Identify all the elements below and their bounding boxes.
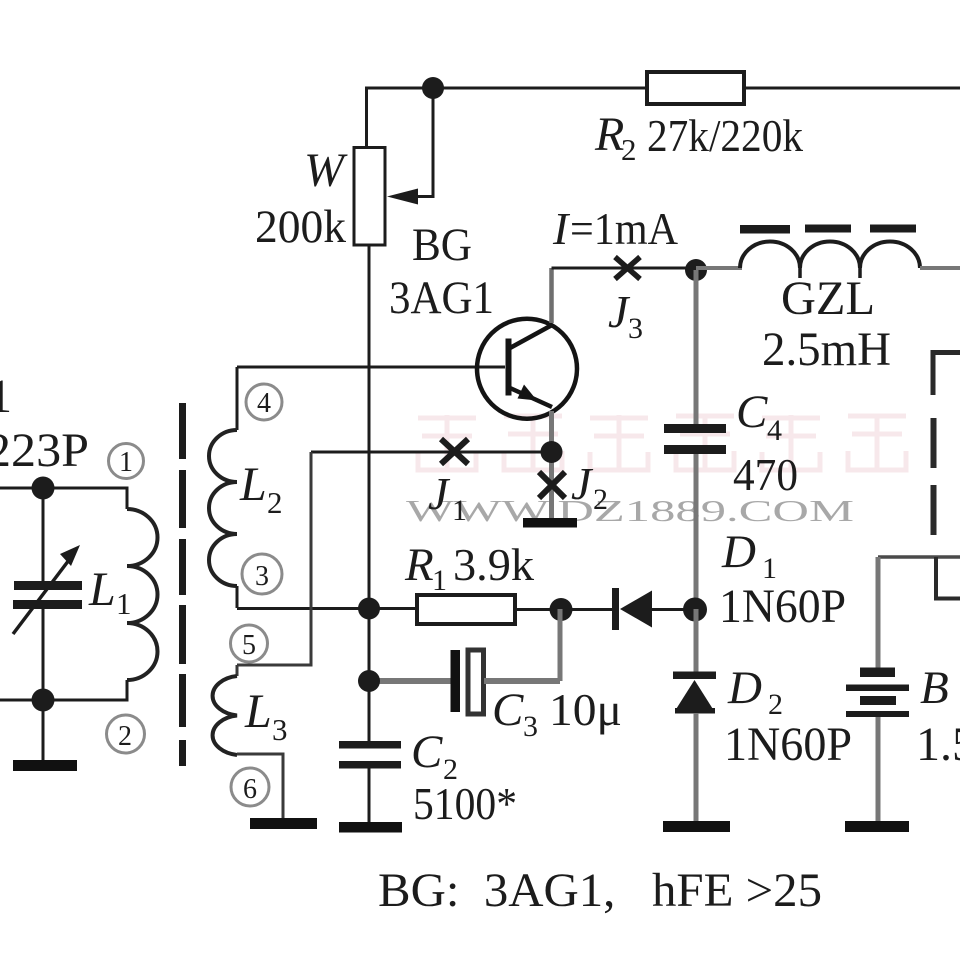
svg-text:B: B [920, 662, 949, 714]
transistor BG emitter stroke [510, 388, 552, 407]
inductor L3 [213, 676, 237, 755]
wire pot top drop [365, 88, 368, 149]
svg-text:2.5mH: 2.5mH [762, 323, 891, 376]
wire J1 to tap 5 [237, 452, 311, 665]
potentiometer W body [354, 148, 385, 246]
wire top rail [365, 87, 960, 90]
svg-text:C: C [492, 684, 524, 736]
svg-text:6: 6 [243, 774, 257, 805]
switch J1 cross [441, 439, 468, 464]
transistor BG circle [477, 319, 577, 419]
svg-text:200k: 200k [255, 201, 346, 253]
ground L3 [250, 818, 317, 829]
wire emitter vertical [549, 411, 554, 518]
wire antenna top [0, 488, 127, 509]
resistor R1 [417, 595, 515, 624]
potentiometer W wiper arrow [387, 189, 418, 205]
svg-text:3AG1: 3AG1 [389, 272, 494, 324]
diode D2 anode bar [675, 708, 715, 714]
inductor GZL core dashes [740, 225, 916, 234]
svg-text:C: C [411, 726, 443, 778]
inductor L1 [127, 509, 158, 680]
svg-text:2: 2 [621, 132, 637, 167]
wire R1 to D1 [515, 608, 613, 611]
svg-text:2: 2 [593, 483, 608, 516]
transistor BG collector stroke [510, 325, 552, 348]
wire battery top rail [878, 555, 960, 559]
wire D1 to node [652, 608, 696, 611]
svg-text:3: 3 [255, 561, 269, 592]
wire to GZL [696, 266, 742, 270]
transistor BG emitter arrowhead [518, 385, 538, 401]
svg-text:1N60P: 1N60P [724, 718, 852, 771]
svg-text:L: L [244, 685, 272, 738]
svg-text:BG: 3AG1, hFE >25: BG: 3AG1, hFE >25 [378, 864, 822, 917]
diode D2 cathode bar [673, 672, 716, 680]
wire GZL to right edge [920, 266, 960, 270]
svg-text:D: D [721, 526, 756, 578]
svg-text:3: 3 [523, 710, 538, 743]
svg-text:3: 3 [628, 312, 643, 345]
transformer core dashed line [179, 403, 186, 766]
svg-text:4: 4 [767, 414, 782, 447]
node antenna bottom junction [32, 689, 55, 712]
node D1 junction [683, 598, 707, 622]
svg-text:D: D [727, 662, 762, 714]
svg-text:R: R [404, 539, 434, 591]
diode D1 triangle [620, 591, 652, 628]
variable capacitor C1 top lead [42, 488, 45, 581]
wire R1 rail [237, 607, 417, 610]
battery B [846, 668, 909, 718]
node antenna top junction [32, 477, 55, 500]
capacitor C4 [664, 424, 726, 454]
svg-text:1.5V: 1.5V [916, 718, 960, 771]
svg-text:J: J [428, 468, 451, 519]
wire pot bottom long vertical [368, 245, 371, 741]
node collector junction [685, 259, 707, 281]
svg-text:GZL: GZL [781, 272, 875, 325]
wire C4 bottom to D1 node [694, 454, 699, 609]
tap circle 1 [109, 444, 144, 479]
dashed box earphone top corner [933, 353, 960, 396]
wire C3 to R1 node [484, 678, 560, 684]
svg-text:223P: 223P [0, 424, 89, 477]
terminal bar below J2 [523, 518, 577, 528]
svg-text:10μ: 10μ [549, 684, 622, 735]
wire node to D2 [694, 609, 699, 672]
svg-text:W: W [304, 144, 348, 197]
dashed box earphone left dashes [931, 418, 937, 535]
inductor GZL [740, 242, 920, 269]
ground C2 [339, 822, 402, 833]
wire battery top lead [876, 557, 881, 668]
wire C2 to ground [368, 768, 371, 822]
wire antenna bottom [0, 680, 127, 700]
wire J1 rail [311, 451, 551, 454]
capacitor C3 left plate [451, 650, 461, 712]
wire wiper drop [417, 88, 433, 197]
wire base lead [237, 366, 505, 369]
svg-text:2: 2 [267, 485, 283, 520]
switch J3 cross [615, 257, 640, 279]
svg-text:1: 1 [119, 447, 133, 478]
tap circle 3 [242, 554, 282, 594]
wire battery bottom lead [876, 717, 881, 822]
wire C3 rail [369, 678, 451, 684]
svg-text:1: 1 [452, 494, 467, 527]
resistor R2 [647, 72, 744, 104]
svg-text:2: 2 [768, 688, 783, 721]
variable capacitor C1 bottom lead [42, 609, 45, 760]
svg-text:5: 5 [242, 630, 256, 661]
svg-text:1N60P: 1N60P [719, 580, 846, 633]
ground D2 [663, 821, 730, 832]
svg-text:I: I [552, 203, 571, 254]
tap circle 4 [246, 384, 282, 420]
transistor BG base bar [506, 339, 512, 396]
node A top junction [422, 77, 444, 99]
svg-text:=1mA: =1mA [570, 203, 678, 254]
wire L2 winding [236, 367, 239, 430]
diode D2 triangle [676, 680, 714, 710]
svg-text:470: 470 [733, 449, 798, 500]
svg-text:L: L [88, 563, 116, 616]
svg-text:3.9k: 3.9k [453, 539, 534, 590]
capacitor C3 right plate [468, 650, 484, 714]
svg-text:27k/220k: 27k/220k [647, 110, 803, 161]
svg-text:3: 3 [272, 712, 288, 747]
node R1 left junction [358, 598, 380, 620]
svg-text:1: 1 [432, 564, 447, 597]
svg-text:1: 1 [116, 586, 132, 621]
earphone inner corner [936, 557, 960, 599]
wire L2 bottom [236, 586, 239, 608]
node C3 top junction [550, 598, 573, 621]
switch J2 cross [539, 472, 565, 498]
svg-text:L: L [239, 458, 267, 511]
svg-text:R: R [594, 108, 624, 161]
node C3 left junction [358, 670, 380, 692]
wire collector vertical [549, 268, 554, 323]
inductor L3 top wire [236, 665, 239, 676]
variable capacitor C1 arrow [13, 556, 72, 634]
svg-text:C: C [736, 386, 768, 438]
wire L3 bottom [237, 754, 283, 818]
wire C4 top [694, 270, 699, 424]
ground battery [845, 821, 909, 832]
svg-text:1: 1 [0, 370, 12, 423]
inductor L2 [209, 430, 237, 586]
tap circle 5 [231, 625, 268, 662]
watermark row 1 [418, 414, 906, 470]
capacitor C2 [339, 741, 401, 769]
svg-text:5100*: 5100* [413, 778, 517, 829]
node emitter junction [541, 441, 563, 463]
svg-text:BG: BG [412, 219, 472, 271]
svg-text:4: 4 [257, 388, 271, 419]
variable capacitor C1 plates [13, 581, 82, 609]
ground antenna [13, 760, 77, 771]
svg-text:2: 2 [118, 721, 132, 752]
svg-text:J: J [571, 458, 594, 509]
tap circle 6 [231, 768, 269, 806]
diode D1 cathode bar [612, 588, 619, 630]
wire J3 link [552, 267, 697, 270]
wire D2 to ground [694, 713, 699, 822]
tap circle 2 [107, 715, 145, 753]
